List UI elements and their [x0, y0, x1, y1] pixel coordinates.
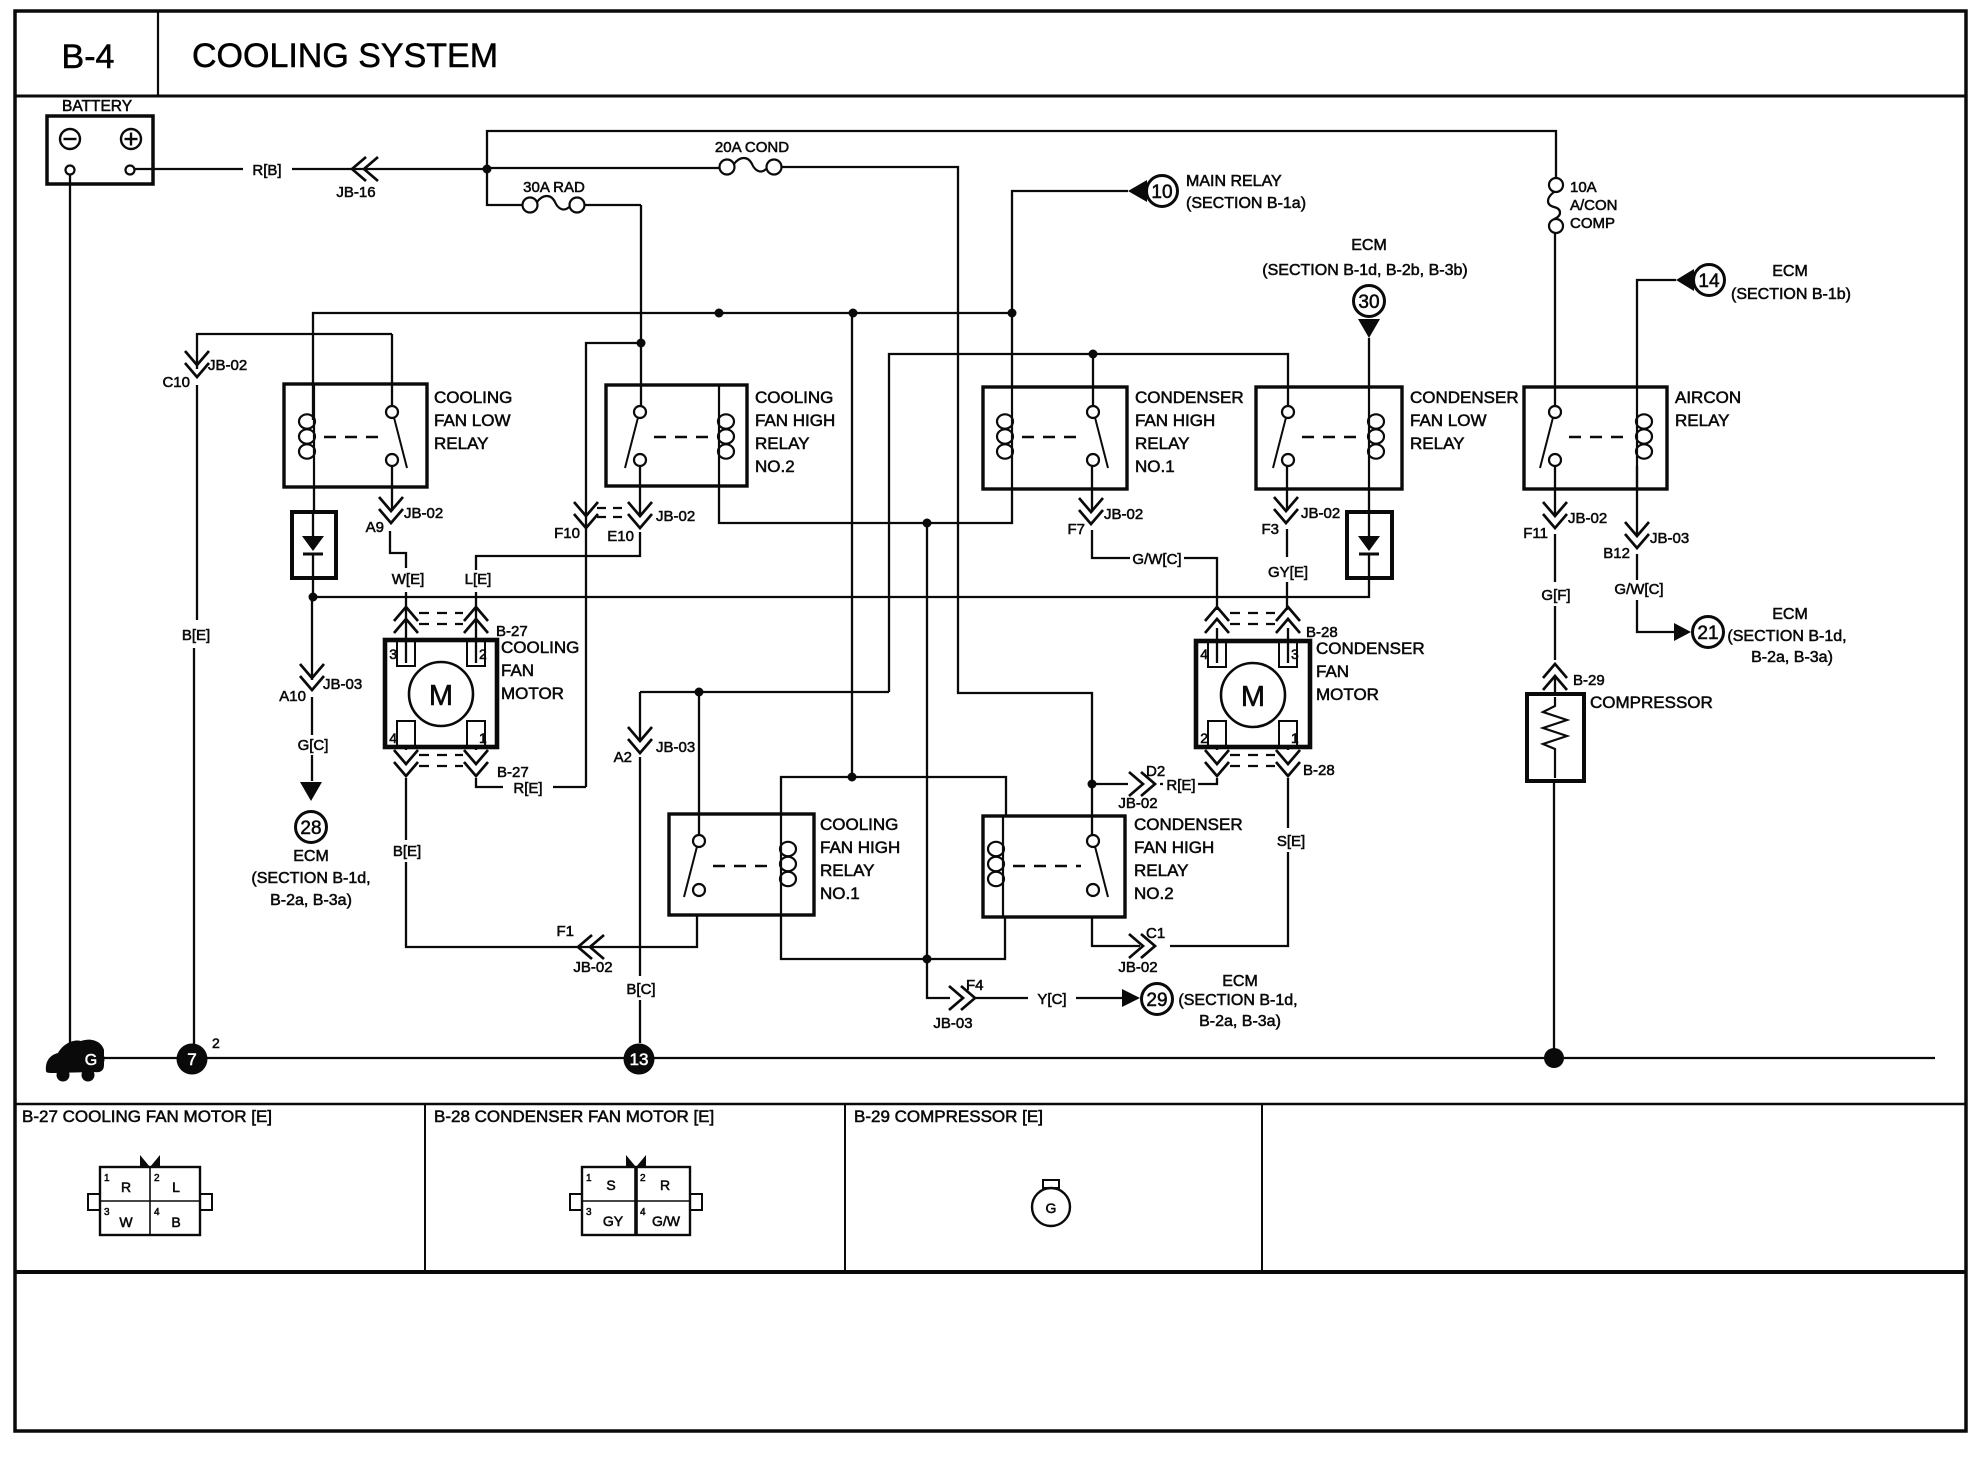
title bar divider — [157, 11, 159, 96]
svg-text:R[E]: R[E] — [513, 780, 542, 797]
svg-text:FAN: FAN — [501, 661, 534, 680]
svg-text:30: 30 — [1358, 292, 1379, 313]
svg-text:2: 2 — [212, 1035, 220, 1051]
svg-text:JB-02: JB-02 — [208, 357, 247, 374]
wire B12 G/W[C] to ECM21 — [1637, 466, 1674, 632]
wire motor pin1 R[E] to F10 — [476, 747, 586, 787]
wire bus B diode link — [313, 578, 1369, 597]
wire 30A output down to relay — [640, 205, 642, 406]
svg-text:MOTOR: MOTOR — [501, 684, 564, 703]
svg-text:CONDENSER: CONDENSER — [1134, 815, 1243, 834]
svg-text:MAIN RELAY: MAIN RELAY — [1186, 173, 1282, 190]
wire y777 middle coil tops — [781, 777, 1006, 816]
panel divider 1 — [424, 1104, 426, 1272]
svg-text:1: 1 — [586, 1173, 592, 1184]
label B[C] — [626, 981, 655, 998]
node junction y777 — [848, 773, 857, 782]
svg-text:R: R — [660, 1177, 670, 1193]
compressor B-29 — [1527, 693, 1713, 781]
svg-text:RELAY: RELAY — [1134, 861, 1189, 880]
svg-text:B: B — [171, 1214, 180, 1230]
svg-text:FAN HIGH: FAN HIGH — [1134, 838, 1214, 857]
wire F11 G[F] compressor feed — [1554, 466, 1556, 694]
svg-text:FAN LOW: FAN LOW — [434, 411, 511, 430]
svg-text:3: 3 — [1291, 646, 1299, 662]
svg-text:G/W: G/W — [652, 1213, 681, 1229]
svg-text:3: 3 — [586, 1207, 592, 1218]
svg-text:CONDENSER: CONDENSER — [1316, 639, 1425, 658]
svg-text:R[E]: R[E] — [1166, 777, 1195, 794]
svg-text:COOLING: COOLING — [501, 638, 579, 657]
title B-4 — [62, 38, 115, 76]
svg-text:F10: F10 — [554, 525, 580, 542]
svg-text:FAN LOW: FAN LOW — [1410, 411, 1487, 430]
fuse 30A RAD — [487, 169, 641, 213]
ECM 21 arrow — [1674, 606, 1847, 666]
motor condenser fan — [1196, 639, 1425, 747]
node junction 30A branch — [637, 339, 646, 348]
svg-text:F4: F4 — [966, 977, 984, 994]
connector panel B-27 — [22, 1107, 272, 1235]
svg-text:ECM: ECM — [1351, 237, 1387, 254]
wire top bus — [487, 131, 1556, 178]
wire branch to F10 — [586, 343, 641, 787]
wire ECM14 to aircon coil — [1637, 280, 1676, 387]
connector C10 JB-02 — [162, 351, 247, 391]
svg-text:A/CON: A/CON — [1570, 197, 1618, 214]
connector F7 JB-02 — [1067, 498, 1143, 538]
svg-text:B-2a, B-3a): B-2a, B-3a) — [1199, 1013, 1281, 1030]
svg-text:10A: 10A — [1570, 179, 1597, 196]
svg-text:S: S — [606, 1177, 615, 1193]
relay condenser fan high no1 — [983, 387, 1244, 489]
wire C10 branch — [194, 334, 392, 1044]
label S[E] — [1277, 833, 1305, 850]
connector A2 JB-03 — [614, 727, 696, 766]
wire 20A output to condenser circuit — [782, 167, 1093, 784]
relay cooling fan high no1 — [669, 814, 900, 915]
wire y354 ground side of condenser switches — [889, 354, 1288, 692]
svg-text:COOLING: COOLING — [820, 815, 898, 834]
node junction bus A middle feed — [849, 309, 858, 318]
svg-text:GY[E]: GY[E] — [1268, 564, 1308, 581]
svg-text:FAN HIGH: FAN HIGH — [755, 411, 835, 430]
svg-text:14: 14 — [1698, 271, 1720, 292]
connector JB-16 — [336, 157, 378, 201]
svg-text:ECM: ECM — [293, 848, 329, 865]
svg-text:C10: C10 — [162, 374, 190, 391]
wire battery minus to ground — [69, 175, 71, 1051]
svg-text:F1: F1 — [556, 923, 574, 940]
svg-text:B-4: B-4 — [62, 38, 115, 76]
label W[E] — [392, 571, 425, 588]
wire main relay feed — [1012, 191, 1128, 313]
svg-text:(SECTION B-1d,: (SECTION B-1d, — [1178, 992, 1297, 1009]
wire F7 G/W[C] to condenser motor pin4 — [1092, 466, 1217, 663]
node junction y959 — [923, 955, 932, 964]
svg-text:4: 4 — [389, 730, 397, 746]
label GY[E] — [1268, 564, 1308, 581]
svg-text:JB-02: JB-02 — [573, 959, 612, 976]
title COOLING SYSTEM — [192, 37, 498, 75]
ECM 30 arrow to condenser fan low coil — [1262, 237, 1467, 387]
svg-text:JB-03: JB-03 — [656, 739, 695, 756]
svg-text:4: 4 — [640, 1207, 646, 1218]
wire ground bus — [103, 1057, 1935, 1059]
svg-text:3: 3 — [104, 1207, 110, 1218]
svg-text:ECM: ECM — [1772, 263, 1808, 280]
connector E10 JB-02 — [597, 502, 695, 545]
label Y[C] — [1037, 991, 1066, 1008]
svg-text:COMPRESSOR: COMPRESSOR — [1590, 693, 1713, 712]
diode D cooling fan low — [292, 487, 336, 597]
svg-text:(SECTION B-1b): (SECTION B-1b) — [1731, 286, 1851, 303]
wire diode to ECM28 — [311, 597, 313, 781]
svg-text:GY: GY — [603, 1213, 624, 1229]
label G[F] — [1541, 587, 1570, 604]
svg-text:B12: B12 — [1603, 545, 1630, 562]
relay cooling fan high no2 — [606, 385, 835, 486]
svg-text:JB-02: JB-02 — [404, 505, 443, 522]
fuse 20A COND — [487, 139, 789, 175]
motor cooling fan — [385, 638, 579, 747]
svg-text:COOLING SYSTEM: COOLING SYSTEM — [192, 37, 498, 75]
svg-text:L[E]: L[E] — [465, 571, 492, 588]
svg-text:RELAY: RELAY — [434, 434, 489, 453]
relay condenser fan low — [1256, 387, 1519, 489]
svg-text:C1: C1 — [1146, 925, 1165, 942]
svg-text:20A COND: 20A COND — [715, 139, 789, 156]
connector F11 JB-02 — [1523, 502, 1607, 542]
svg-text:RELAY: RELAY — [1135, 434, 1190, 453]
svg-text:F3: F3 — [1261, 521, 1279, 538]
svg-text:RELAY: RELAY — [755, 434, 810, 453]
connector F1 JB-02 — [556, 923, 612, 976]
svg-text:B-29: B-29 — [1573, 672, 1605, 689]
svg-text:FAN HIGH: FAN HIGH — [820, 838, 900, 857]
connector F4 JB-03 — [933, 977, 983, 1032]
svg-text:M: M — [429, 680, 453, 712]
node junction y523 — [923, 519, 932, 528]
wire y692 ground link — [640, 691, 889, 693]
node junction R[E] — [1088, 780, 1097, 789]
wire middle coil supply x852 — [851, 313, 853, 777]
wire coil bottoms y523 to ECM29 drop — [719, 486, 1012, 523]
svg-text:G/W[C]: G/W[C] — [1614, 581, 1663, 598]
svg-text:B[E]: B[E] — [182, 627, 210, 644]
svg-text:1: 1 — [104, 1173, 110, 1184]
svg-text:B-28: B-28 — [1303, 762, 1335, 779]
svg-text:B-29 COMPRESSOR [E]: B-29 COMPRESSOR [E] — [854, 1107, 1043, 1126]
wire F4 Y[C] to ECM29 — [927, 959, 1122, 998]
connector F10 JB-02 — [554, 502, 598, 542]
svg-text:13: 13 — [630, 1050, 649, 1069]
ECM 14 arrow — [1676, 263, 1851, 303]
wire 10A to aircon switch — [1554, 233, 1556, 406]
svg-text:B-2a, B-3a): B-2a, B-3a) — [270, 892, 352, 909]
svg-text:COMP: COMP — [1570, 215, 1615, 232]
title bar bottom rule — [15, 95, 1966, 98]
panel divider 3 — [1261, 1104, 1263, 1272]
label B[E] cooling ground wire — [182, 627, 210, 644]
svg-text:W[E]: W[E] — [392, 571, 425, 588]
svg-text:ECM: ECM — [1222, 973, 1258, 990]
svg-text:4: 4 — [1200, 646, 1208, 662]
node junction compressor ground — [1544, 1048, 1564, 1068]
svg-text:COOLING: COOLING — [755, 388, 833, 407]
svg-text:CONDENSER: CONDENSER — [1410, 388, 1519, 407]
node junction y692 — [695, 688, 704, 697]
fuse 10A A/CON COMP — [1548, 178, 1618, 233]
ground G car body — [46, 1040, 105, 1082]
svg-text:NO.2: NO.2 — [755, 457, 795, 476]
svg-text:JB-02: JB-02 — [1118, 959, 1157, 976]
svg-text:(SECTION B-1d, B-2b, B-3b): (SECTION B-1d, B-2b, B-3b) — [1262, 262, 1467, 279]
svg-text:(SECTION B-1d,: (SECTION B-1d, — [1727, 628, 1846, 645]
svg-text:A9: A9 — [366, 519, 384, 536]
svg-text:AIRCON: AIRCON — [1675, 388, 1741, 407]
wire bus A relay coil supply — [313, 313, 1012, 420]
svg-text:7: 7 — [187, 1050, 196, 1069]
connector B-28 lower — [1205, 750, 1335, 779]
label G/W[C] aircon — [1614, 581, 1663, 598]
svg-text:ECM: ECM — [1772, 606, 1808, 623]
svg-text:2: 2 — [154, 1173, 160, 1184]
svg-text:B[C]: B[C] — [626, 981, 655, 998]
svg-text:28: 28 — [300, 818, 321, 839]
svg-text:G[C]: G[C] — [298, 737, 329, 754]
relay aircon — [1524, 387, 1741, 489]
svg-text:A2: A2 — [614, 749, 632, 766]
connector B-29 — [1543, 664, 1605, 690]
svg-text:4: 4 — [154, 1207, 160, 1218]
label B[E] motor pin4 — [393, 843, 421, 860]
svg-text:E10: E10 — [607, 528, 634, 545]
svg-text:3: 3 — [389, 646, 397, 662]
svg-text:B[E]: B[E] — [393, 843, 421, 860]
node junction battery feed — [483, 165, 492, 174]
svg-text:F11: F11 — [1523, 525, 1548, 542]
node junction diode bus B — [309, 593, 318, 602]
wire middle no2 switch feed — [1091, 784, 1093, 835]
svg-text:RELAY: RELAY — [820, 861, 875, 880]
svg-text:JB-16: JB-16 — [336, 184, 375, 201]
label G/W[C] no1 switch — [1132, 551, 1181, 568]
svg-text:W: W — [119, 1214, 133, 1230]
svg-text:30A RAD: 30A RAD — [523, 179, 585, 196]
connector D2 JB-02 — [1118, 763, 1165, 812]
svg-text:CONDENSER: CONDENSER — [1135, 388, 1244, 407]
svg-text:JB-03: JB-03 — [1650, 530, 1689, 547]
connector F3 JB-02 — [1261, 497, 1340, 538]
connector panel top rule — [15, 1103, 1966, 1105]
svg-text:NO.2: NO.2 — [1134, 884, 1174, 903]
svg-text:NO.1: NO.1 — [1135, 457, 1175, 476]
wire D2 R[E] to condenser motor pin2 — [1092, 747, 1217, 784]
wire B[C] to ground 13 — [639, 692, 641, 1043]
connector panel bottom rule — [15, 1270, 1966, 1274]
label G[C] — [298, 737, 329, 754]
svg-text:D2: D2 — [1146, 763, 1165, 780]
svg-text:2: 2 — [479, 646, 487, 662]
battery B+ B- — [47, 98, 153, 184]
ECM 28 arrow — [251, 782, 370, 909]
svg-text:NO.1: NO.1 — [820, 884, 860, 903]
svg-text:RELAY: RELAY — [1410, 434, 1465, 453]
relay condenser fan high no2 — [983, 815, 1243, 917]
connector A10 JB-03 — [279, 664, 362, 705]
label R[E] cooling — [513, 780, 542, 797]
svg-text:B-2a, B-3a): B-2a, B-3a) — [1751, 649, 1833, 666]
wire motor pin4 B[E] to F1 — [406, 747, 697, 947]
svg-text:G: G — [85, 1052, 97, 1069]
svg-text:JB-02: JB-02 — [656, 508, 695, 525]
svg-text:MOTOR: MOTOR — [1316, 685, 1379, 704]
svg-text:S[E]: S[E] — [1277, 833, 1305, 850]
svg-text:L: L — [172, 1179, 180, 1195]
svg-text:RELAY: RELAY — [1675, 411, 1730, 430]
svg-text:JB-02: JB-02 — [1104, 506, 1143, 523]
wire R[B] battery plus to junction — [135, 162, 488, 179]
svg-text:21: 21 — [1697, 623, 1718, 644]
svg-text:R[B]: R[B] — [252, 162, 281, 179]
svg-text:2: 2 — [640, 1173, 646, 1184]
relay cooling fan low — [284, 384, 512, 487]
label L[E] — [465, 571, 492, 588]
svg-text:B-27 COOLING FAN MOTOR [E]: B-27 COOLING FAN MOTOR [E] — [22, 1107, 272, 1126]
connector B-27 upper — [394, 607, 528, 640]
wire compressor to ground — [1553, 781, 1555, 1058]
svg-text:Y[C]: Y[C] — [1037, 991, 1066, 1008]
svg-text:M: M — [1241, 681, 1265, 713]
connector B-28 upper — [1205, 607, 1338, 641]
svg-text:JB-02: JB-02 — [1301, 505, 1340, 522]
wire E10 to L[E] — [476, 466, 640, 663]
wire x928 down to y959 — [926, 523, 928, 959]
svg-text:G: G — [1046, 1200, 1057, 1216]
svg-text:(SECTION B-1a): (SECTION B-1a) — [1186, 195, 1306, 212]
svg-text:B-28 CONDENSER FAN MOTOR [E]: B-28 CONDENSER FAN MOTOR [E] — [434, 1107, 714, 1126]
svg-text:10: 10 — [1151, 182, 1172, 203]
wire F3 GY[E] to condenser motor pin3 — [1287, 466, 1288, 663]
connector B-27 lower — [394, 750, 529, 781]
wire no1 switch top — [1092, 354, 1094, 406]
wire middle coil bottoms y959 — [781, 915, 1005, 959]
svg-text:FAN: FAN — [1316, 662, 1349, 681]
connector A9 JB-02 — [366, 497, 444, 536]
node junction bus A main relay — [1008, 309, 1017, 318]
svg-text:B-27: B-27 — [497, 764, 529, 781]
diode D condenser fan low — [1347, 489, 1392, 578]
node junction bus A coil no2 — [715, 309, 724, 318]
connector C1 JB-02 — [1118, 925, 1165, 976]
label R[E] condenser — [1166, 777, 1195, 794]
wire S[E] motor pin1 to C1 — [1092, 747, 1288, 946]
svg-text:G/W[C]: G/W[C] — [1132, 551, 1181, 568]
svg-text:G[F]: G[F] — [1541, 587, 1570, 604]
svg-text:BATTERY: BATTERY — [62, 98, 132, 115]
svg-text:COOLING: COOLING — [434, 388, 512, 407]
svg-text:JB-02: JB-02 — [1568, 510, 1607, 527]
svg-text:(SECTION B-1d,: (SECTION B-1d, — [251, 870, 370, 887]
svg-text:JB-02: JB-02 — [1118, 795, 1157, 812]
ground node 13 — [624, 1044, 655, 1075]
ECM 29 arrow — [1122, 973, 1298, 1030]
node junction y354 no1 switch — [1089, 350, 1098, 359]
svg-text:JB-03: JB-03 — [323, 676, 362, 693]
ECM 10 main relay arrow — [1128, 173, 1306, 212]
panel divider 2 — [844, 1104, 846, 1272]
svg-text:2: 2 — [1200, 730, 1208, 746]
connector panel B-29 — [854, 1107, 1070, 1226]
ground node 7 — [177, 1035, 221, 1075]
svg-text:JB-03: JB-03 — [933, 1015, 972, 1032]
svg-text:29: 29 — [1146, 990, 1167, 1011]
svg-text:A10: A10 — [279, 688, 306, 705]
wire A9 to W[E] — [390, 466, 406, 663]
svg-text:1: 1 — [479, 730, 487, 746]
connector panel B-28 — [434, 1107, 714, 1235]
svg-text:R: R — [121, 1179, 131, 1195]
svg-text:1: 1 — [1291, 730, 1299, 746]
svg-text:FAN HIGH: FAN HIGH — [1135, 411, 1215, 430]
wire middle no1 switch feed — [698, 692, 700, 835]
connector B12 JB-03 — [1603, 522, 1689, 562]
svg-text:F7: F7 — [1067, 521, 1085, 538]
